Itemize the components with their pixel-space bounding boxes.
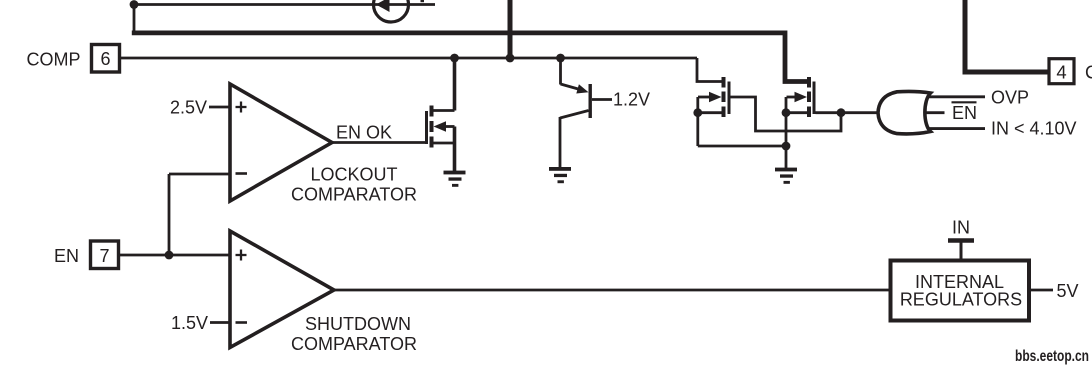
wire M1 source to ground rail [698,145,786,148]
transistor Q1 EN-OK NMOS [425,106,455,148]
wire M1 bulk/source vertical [696,97,699,146]
wire top-left vertical drop [133,5,136,33]
node M2 source [782,108,791,117]
op-amp U1 lockout comparator [230,84,332,201]
svg-text:4: 4 [1056,61,1066,82]
wire minus input vertical from EN node [168,174,171,255]
node COMP-Q1 [450,54,459,63]
svg-text:COMP: COMP [27,50,81,70]
svg-text:1.2V: 1.2V [613,90,650,110]
wire 1.5V to minus input [210,321,230,324]
wire Q1 source down [453,127,457,173]
wire EN horizontal [119,254,231,257]
wire IN<4.10V input [920,127,985,130]
wire Q2 base [592,98,612,101]
wire shutdown output [334,289,890,292]
wire minus input horizontal [169,173,230,176]
ground M2 [775,168,797,184]
wire thick vertical at x=511 [508,0,513,58]
node COMP-bus [506,54,515,63]
wire thick vertical to pin 4 [965,0,1048,72]
svg-text:2.5V: 2.5V [170,98,207,118]
wire thick bus drop to M2 drain [785,31,808,82]
wire M2 gate to OR gate [816,111,879,114]
wire EN-bar input [920,111,945,114]
svg-text:bbs.eetop.cn: bbs.eetop.cn [1015,348,1089,365]
node COMP-Q2 [556,54,565,63]
wire M1 gate link [731,97,842,131]
ground Q1 [444,171,466,187]
svg-text:COMPARATOR: COMPARATOR [291,334,417,354]
svg-text:OVP: OVP [991,88,1029,108]
wire thick top bus horizontal [132,31,785,36]
or-gate U3 (mirrored, output left) [878,91,931,134]
transistor M1 NMOS (left of pair, mirrored) [698,77,731,117]
node top-left junction [130,0,139,9]
transistor Q2 PNP 1.2V clamp [560,58,592,169]
wire 5V output [1029,289,1053,292]
svg-text:EN: EN [952,103,977,123]
wire COMP horizontal [120,57,698,60]
label EN-bar [952,102,978,123]
svg-text:EN: EN [54,246,79,266]
svg-text:5V: 5V [1057,281,1079,301]
wire Q1 drain to COMP [453,58,457,111]
pin 6 box [92,45,120,73]
wire M2 bulk/source vertical to ground [785,97,788,168]
wire COMP corner down to M1 drain [697,58,722,82]
pin 7 box [91,241,119,269]
node gate link [837,108,846,117]
svg-text:IN: IN [952,218,970,238]
op-amp U2 shutdown comparator [230,231,334,348]
node M1 source [693,108,702,117]
svg-text:LOCKOUT: LOCKOUT [310,165,397,185]
transistor M2 NMOS (right of pair, mirrored) [787,77,816,117]
tick (cropped label fragment) [421,0,425,2]
wire top horizontal to current source [134,3,435,6]
svg-text:6: 6 [100,49,110,69]
wire OVP input [920,95,985,98]
svg-text:SHUTDOWN: SHUTDOWN [305,314,411,334]
svg-text:7: 7 [99,246,109,266]
pin 4 box [1049,59,1074,84]
supply IN [948,218,974,261]
svg-text:REGULATORS: REGULATORS [900,290,1022,310]
svg-text:COMPARATOR: COMPARATOR [291,185,417,205]
svg-text:IN < 4.10V: IN < 4.10V [991,119,1077,139]
svg-text:1.5V: 1.5V [171,313,208,333]
node ground rail junction [782,142,791,151]
wire 2.5V to plus input [209,106,230,109]
svg-text:C: C [1085,63,1092,83]
block INTERNAL REGULATORS [891,261,1030,321]
wire EN OK output [332,141,425,144]
node EN junction [165,251,174,260]
ground Q2 [549,167,571,183]
current source I1 [374,0,409,22]
svg-text:EN OK: EN OK [336,123,392,143]
